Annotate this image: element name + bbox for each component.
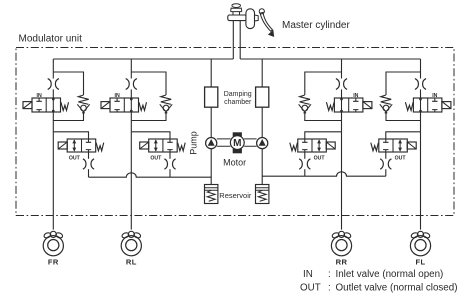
svg-text:IN: IN: [115, 93, 120, 99]
wire: right pump to damping chamber: [261, 107, 263, 137]
check valve FR ball and seat: [81, 105, 87, 111]
wire: left reservoir return line (hops RL wheel line): [89, 173, 212, 185]
wire: FR bypass return: [53, 112, 83, 120]
pump drive shafts: [217, 139, 257, 146]
wheel cylinder RL caliper: [121, 231, 141, 238]
wire: FR outlet drop to reservoir line: [88, 169, 90, 177]
pump right: [257, 138, 268, 149]
svg-text:IN: IN: [432, 93, 437, 99]
wheel cylinder FR caliper: [43, 231, 63, 238]
brake booster: [246, 9, 255, 29]
node: RL channel supply junction: [130, 59, 132, 79]
inlet valve RL solenoid: [101, 102, 110, 109]
master cylinder body: [228, 15, 247, 21]
wire: FL outlet drop to reservoir line: [385, 169, 387, 176]
check valve RR spring: [300, 95, 310, 104]
wire: FR bypass branch (top): [53, 72, 83, 95]
orifice above inlet valve FR: [48, 79, 59, 90]
node: FR channel supply junction: [52, 59, 54, 79]
svg-text:IN: IN: [303, 269, 313, 280]
inlet valve FL return spring: [405, 102, 413, 110]
svg-text:Modulator unit: Modulator unit: [19, 34, 83, 45]
wire: RL bypass branch (top): [131, 72, 166, 95]
wire: right reservoir return line (hops RR wheel line): [262, 172, 386, 185]
pump left: [206, 138, 217, 149]
reservoir left body: [205, 185, 218, 204]
wire: right pump discharge line: [261, 59, 263, 87]
pedal pivot: [259, 9, 264, 14]
wheel cylinder FR drum: [43, 236, 63, 256]
svg-text:Outlet valve (normal closed): Outlet valve (normal closed): [336, 282, 458, 293]
wheel cylinder FL caliper: [410, 231, 430, 238]
wire: FL outlet to orifice: [385, 152, 387, 159]
wire: rear circuit supply manifold: [240, 58, 420, 60]
svg-text:OUT: OUT: [314, 156, 326, 162]
check valve FR spring: [78, 95, 88, 104]
wire: RL outlet branch: [131, 132, 170, 139]
wire: RR bypass return: [305, 112, 342, 120]
svg-text:OUT: OUT: [395, 156, 407, 162]
damping chamber left: [205, 87, 218, 107]
svg-text:FL: FL: [415, 257, 425, 266]
wire: left pump suction: [210, 149, 212, 178]
svg-text::: :: [328, 269, 331, 280]
svg-text::: :: [328, 282, 331, 293]
wire: brake line to wheel RR: [341, 132, 343, 230]
wire: RR bypass branch (top): [305, 72, 342, 95]
wire: RR outlet to orifice: [304, 152, 306, 159]
node: FL channel supply junction: [420, 59, 422, 79]
brake pedal arm with arrow: [260, 12, 273, 31]
reservoir right body: [256, 185, 269, 204]
reservoir right spring: [258, 190, 266, 201]
wire: RR main line through orifice: [341, 89, 343, 98]
reservoir left piston: [205, 188, 218, 191]
wire: right pump suction: [261, 149, 263, 177]
motor M1: [233, 132, 242, 136]
wire: RL outlet drop to reservoir line: [169, 169, 171, 177]
svg-text:chamber: chamber: [224, 99, 252, 106]
svg-text:FR: FR: [48, 257, 59, 266]
damping chamber right: [256, 87, 269, 107]
outlet valve FL body: [379, 139, 408, 152]
outlet valve RL return spring: [178, 143, 186, 151]
outlet valve RL solenoid: [140, 142, 149, 149]
orifice above inlet valve RR: [336, 79, 347, 90]
wire: FR outlet branch: [53, 132, 88, 139]
svg-text:Pump: Pump: [189, 131, 199, 155]
inlet valve RL return spring: [139, 102, 147, 110]
outlet valve FR return spring: [96, 143, 104, 151]
wire: RR outlet branch: [305, 132, 342, 139]
wire: brake line to wheel FL: [420, 132, 422, 230]
outlet valve FL return spring: [371, 143, 379, 151]
outlet valve RR return spring: [290, 143, 298, 151]
check valve FL spring: [381, 95, 391, 104]
outlet valve RL body: [149, 139, 178, 152]
orifice below outlet valve RL: [164, 159, 175, 169]
inlet valve RR body: [334, 98, 363, 112]
svg-text:Damping: Damping: [224, 91, 252, 98]
wire: FL outlet branch: [386, 132, 421, 139]
inlet valve FR return spring: [61, 102, 69, 110]
check valve RR ball and seat: [302, 105, 308, 111]
wheel cylinder RR drum: [331, 236, 351, 256]
orifice above inlet valve RL: [126, 79, 137, 90]
wire: RR line to wheel tee: [341, 112, 343, 132]
svg-text:IN: IN: [353, 93, 358, 99]
wire: front circuit supply manifold: [53, 58, 233, 60]
outlet valve FR body: [67, 139, 96, 152]
inlet valve FL body: [413, 98, 442, 112]
inlet valve RL body: [110, 98, 139, 112]
wire: FR main line through orifice: [52, 89, 54, 98]
wire: left pump discharge line: [210, 59, 212, 87]
wheel cylinder FL drum: [410, 236, 430, 256]
check valve RL ball and seat: [163, 105, 169, 111]
svg-text:Inlet valve (normal open): Inlet valve (normal open): [336, 269, 444, 280]
svg-text:IN: IN: [37, 93, 42, 99]
svg-text:Master cylinder: Master cylinder: [282, 20, 350, 31]
reservoir right piston: [256, 188, 269, 191]
wire: RL bypass return: [131, 112, 166, 120]
wire: FL main line through orifice: [420, 89, 422, 98]
master cylinder neck: [231, 12, 242, 15]
inlet valve FL solenoid: [442, 102, 451, 109]
svg-text:M: M: [233, 138, 241, 149]
wire: master cylinder output lines: [233, 21, 240, 59]
svg-text:Motor: Motor: [223, 158, 246, 168]
outlet valve FL solenoid: [407, 142, 416, 149]
outlet valve RR body: [298, 139, 327, 152]
check valve FL ball and seat: [383, 105, 389, 111]
wire: RL main line through orifice: [130, 89, 132, 98]
wire: brake line to wheel RL: [130, 132, 132, 230]
check valve RL spring: [161, 95, 171, 104]
master cylinder reservoir cap: [231, 4, 242, 12]
svg-text:RL: RL: [126, 257, 137, 266]
orifice above inlet valve FL: [415, 79, 426, 90]
wire: left pump to damping chamber: [210, 107, 212, 137]
wheel cylinder RL drum: [121, 236, 141, 256]
orifice below outlet valve FL: [380, 159, 391, 169]
reservoir left spring: [207, 190, 215, 201]
inlet valve FR body: [32, 98, 61, 112]
svg-text:OUT: OUT: [150, 156, 162, 162]
wire: RL line to wheel tee: [130, 112, 132, 132]
wire: RR outlet drop to reservoir line: [304, 169, 306, 176]
svg-text:OUT: OUT: [300, 282, 321, 293]
orifice below outlet valve FR: [83, 159, 94, 169]
modulator unit boundary (dash-dot box): [16, 48, 454, 216]
wire: FL bypass return: [386, 112, 421, 120]
wire: FL line to wheel tee: [420, 112, 422, 132]
orifice below outlet valve RR: [299, 159, 310, 169]
wire: FL bypass branch (top): [386, 72, 421, 95]
wire: brake line to wheel FR: [52, 132, 54, 230]
inlet valve RR return spring: [326, 102, 334, 110]
outlet valve FR solenoid: [58, 142, 67, 149]
node: RR channel supply junction: [341, 59, 343, 79]
svg-text:RR: RR: [336, 257, 348, 266]
outlet valve RR solenoid: [326, 142, 335, 149]
booster pushrod: [255, 15, 259, 21]
svg-text:OUT: OUT: [69, 156, 81, 162]
svg-text:Reservoir: Reservoir: [219, 191, 252, 200]
wheel cylinder RR caliper: [331, 231, 351, 238]
inlet valve RR solenoid: [363, 102, 372, 109]
wire: FR outlet to orifice: [88, 152, 90, 159]
wire: FR line to wheel tee: [52, 112, 54, 132]
inlet valve FR solenoid: [23, 102, 32, 109]
wire: RL outlet to orifice: [169, 152, 171, 159]
